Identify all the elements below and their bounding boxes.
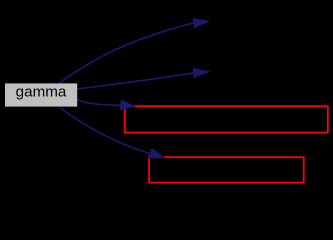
arrowhead of edge 1 — [193, 19, 209, 28]
arrowhead of edge 2 — [193, 68, 208, 77]
edge gamma -> callee 2 — [77, 73, 194, 89]
truncated callee node box 2 (red border) — [149, 157, 304, 182]
arrowhead of edge 3 — [120, 100, 134, 110]
arrowhead of edge 4 — [149, 149, 164, 158]
edge gamma -> callee 1 (top curve) — [59, 23, 194, 84]
node gamma (current function, grey box) — [5, 83, 77, 106]
truncated callee node box 1 (red border) — [125, 106, 328, 132]
edge gamma -> truncated node 2 (bottom curve) — [60, 108, 151, 154]
svg-text:gamma: gamma — [16, 84, 67, 101]
edge gamma -> truncated node 1 — [77, 100, 121, 105]
